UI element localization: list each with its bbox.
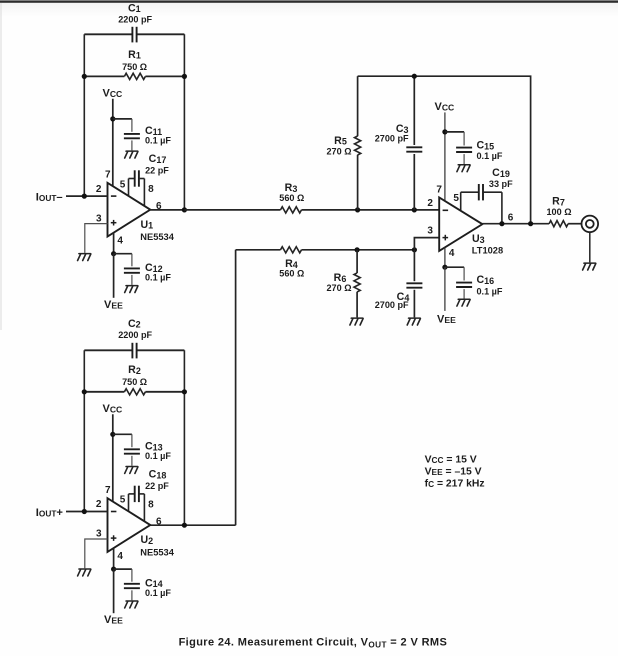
wire: U1 output: [150, 209, 184, 211]
capacitor C12 0.1 uF with ground: [114, 254, 172, 293]
wire: VEE stub (U3): [444, 267, 446, 311]
capacitor C19 33 pF (U3 comp): [461, 167, 513, 224]
svg-text:C1: C1: [128, 2, 141, 14]
ground (connector): [583, 263, 596, 270]
resistor R2 750 Ohm: [84, 364, 184, 395]
svg-text:C16: C16: [477, 274, 495, 286]
svg-text:IOUT+: IOUT+: [36, 507, 64, 519]
wire: VCC stub to U2 pin 7: [112, 414, 114, 501]
wire: U1 pin 4 stub: [113, 233, 115, 254]
svg-text:U3: U3: [472, 233, 485, 245]
svg-text:0.1 µF: 0.1 µF: [145, 451, 171, 461]
svg-text:C15: C15: [477, 139, 495, 151]
wire: VCC stub to U1 pin 7: [112, 99, 114, 186]
op-amp U1 NE5534: [108, 183, 175, 242]
wire: U1 pin 3 to ground: [85, 224, 108, 253]
svg-text:3: 3: [96, 529, 102, 540]
svg-text:C18: C18: [149, 469, 167, 481]
junction: R6 top node: [355, 247, 360, 252]
wire: riser to U3 pin 3: [414, 238, 439, 250]
wire: VCC stub to U3 pin 7: [444, 112, 446, 201]
wire: U3 feedback top rail: [358, 76, 531, 224]
junction: inverting input node: [82, 194, 87, 199]
svg-text:VEE: VEE: [104, 614, 123, 626]
svg-text:VCC: VCC: [103, 88, 123, 100]
capacitor C2 2200 pF: [84, 318, 184, 359]
svg-text:Figure 24. Measurement Circuit: Figure 24. Measurement Circuit, VOUT = 2…: [179, 637, 448, 650]
svg-text:VEE: VEE: [104, 299, 123, 311]
wire: connector shield to ground: [589, 232, 591, 262]
capacitor C11 0.1 uF with ground: [113, 119, 172, 158]
junction: feedback / output: [528, 221, 533, 226]
op-amp U3 LT1028: [439, 197, 503, 255]
resistor R7 100 Ohm: [547, 195, 582, 226]
wire: U1 left feedback vertical: [83, 34, 85, 196]
svg-text:4: 4: [117, 551, 123, 562]
svg-text:R6: R6: [334, 272, 347, 284]
svg-text:R5: R5: [334, 135, 347, 147]
svg-text:2200 pF: 2200 pF: [118, 330, 152, 340]
wire: R3 to U3 pin 2: [358, 209, 440, 211]
svg-text:C19: C19: [492, 167, 510, 179]
op-amp U2 NE5534: [108, 498, 175, 557]
wire: U1 right feedback vertical: [183, 34, 185, 210]
svg-text:2700 pF: 2700 pF: [375, 300, 409, 310]
svg-text:5: 5: [120, 495, 126, 506]
junction: C19 / output: [499, 221, 504, 226]
svg-text:7: 7: [105, 485, 111, 496]
svg-text:2: 2: [96, 499, 102, 510]
wire: U2 output to R4 riser: [150, 524, 235, 526]
svg-text:U1: U1: [141, 219, 154, 231]
svg-text:4: 4: [117, 235, 123, 246]
capacitor C4 2700 pF with ground: [375, 250, 423, 325]
svg-text:22 pF: 22 pF: [145, 481, 169, 491]
svg-text:560 Ω: 560 Ω: [279, 193, 304, 203]
wire: IOUT- input to U1 pin 2: [66, 195, 108, 197]
capacitor C1 2200 pF: [84, 2, 184, 42]
svg-text:VCC = 15 V: VCC = 15 V: [425, 455, 477, 466]
svg-text:7: 7: [436, 184, 442, 195]
svg-text:3: 3: [427, 226, 433, 237]
junction: R1 right node: [182, 74, 187, 79]
svg-text:5: 5: [120, 179, 126, 190]
junction: R5 bottom node: [355, 207, 360, 212]
junction: VCC / C11 tap: [110, 116, 115, 121]
resistor R4 560 Ohm: [236, 247, 358, 279]
junction: VCC / C13 tap: [110, 432, 115, 437]
wire: U3 output: [482, 223, 549, 225]
ground (U1 pin 3): [78, 254, 91, 261]
junction: C4 top node: [412, 247, 417, 252]
svg-text:22 pF: 22 pF: [145, 166, 169, 176]
svg-text:4: 4: [449, 248, 455, 259]
output connector (coax jack): [582, 216, 599, 233]
svg-text:0.1 µF: 0.1 µF: [145, 272, 171, 282]
capacitor C17 22 pF (U1 comp pins 5-8): [129, 153, 170, 206]
svg-text:IOUT–: IOUT–: [36, 192, 63, 204]
svg-text:LT1028: LT1028: [472, 246, 503, 256]
svg-text:2: 2: [96, 184, 102, 195]
capacitor C3 2700 pF: [375, 76, 423, 210]
junction: top rail / C3: [412, 74, 417, 79]
capacitor C13 0.1 uF with ground: [113, 434, 172, 473]
junction: VCC / C15 tap: [442, 129, 447, 134]
svg-text:VEE: VEE: [437, 313, 456, 325]
wire: VEE stub (U1): [113, 254, 115, 298]
junction: U2 inverting input node: [82, 509, 87, 514]
svg-text:NE5534: NE5534: [140, 232, 174, 242]
wire: U2 pin 4 stub: [113, 548, 115, 569]
svg-text:0.1 µF: 0.1 µF: [145, 136, 171, 146]
wire: VEE stub (U2): [113, 569, 115, 613]
svg-text:VEE = –15 V: VEE = –15 V: [425, 466, 482, 477]
resistor R1 750 Ohm: [84, 49, 184, 80]
svg-text:270 Ω: 270 Ω: [327, 146, 352, 156]
svg-text:2: 2: [427, 198, 433, 209]
svg-text:R1: R1: [128, 49, 141, 61]
svg-text:750 Ω: 750 Ω: [122, 62, 147, 72]
resistor R6 270 Ohm with ground: [327, 250, 364, 325]
svg-text:3: 3: [96, 213, 102, 224]
junction: C3 bottom node: [412, 207, 417, 212]
svg-text:7: 7: [105, 170, 111, 181]
svg-text:C2: C2: [128, 318, 141, 330]
wire: riser from U2 output up to R4: [235, 250, 237, 525]
junction: R1 left node: [82, 74, 87, 79]
svg-text:0.1 µF: 0.1 µF: [477, 151, 503, 161]
svg-text:R7: R7: [552, 195, 565, 207]
ground (U2 pin 3): [78, 569, 91, 576]
svg-text:100 Ω: 100 Ω: [547, 207, 572, 217]
svg-text:5: 5: [453, 193, 459, 204]
wire: U3 pin 4 stub: [444, 248, 446, 268]
svg-text:270 Ω: 270 Ω: [327, 283, 352, 293]
junction: R2 right node: [182, 389, 187, 394]
svg-text:VCC: VCC: [435, 101, 455, 113]
capacitor C18 22 pF (U2 comp pins 5-8): [129, 469, 170, 522]
capacitor C15 0.1 uF with ground: [445, 132, 503, 172]
svg-text:2200 pF: 2200 pF: [118, 14, 152, 24]
wire: U2 left feedback vertical: [83, 350, 85, 511]
junction: VEE / C14 tap: [111, 567, 116, 572]
junction: U2 output node: [182, 523, 187, 528]
svg-text:560 Ω: 560 Ω: [279, 269, 304, 279]
svg-text:C17: C17: [149, 153, 167, 165]
svg-text:8: 8: [148, 500, 154, 511]
svg-text:2700 pF: 2700 pF: [375, 134, 409, 144]
wire: U2 pin 3 to ground: [85, 539, 108, 568]
capacitor C16 0.1 uF with ground: [445, 267, 503, 306]
wire: IOUT+ input to U2 pin 2: [66, 511, 108, 513]
svg-text:8: 8: [148, 184, 154, 195]
svg-text:0.1 µF: 0.1 µF: [145, 588, 171, 598]
svg-text:VCC: VCC: [103, 403, 123, 415]
svg-text:R2: R2: [128, 364, 141, 376]
resistor R3 560 Ohm: [184, 182, 357, 213]
wire: U2 right feedback vertical: [183, 350, 185, 525]
resistor R5 270 Ohm: [327, 76, 361, 210]
capacitor C14 0.1 uF with ground: [114, 569, 172, 608]
wire: R4 to C4 node: [357, 249, 414, 251]
svg-text:0.1 µF: 0.1 µF: [477, 287, 503, 297]
svg-text:fC = 217 kHz: fC = 217 kHz: [425, 479, 485, 490]
svg-text:U2: U2: [141, 534, 154, 546]
junction: U1 output node: [182, 207, 187, 212]
svg-text:6: 6: [508, 213, 514, 224]
svg-text:750 Ω: 750 Ω: [122, 377, 147, 387]
svg-text:33 pF: 33 pF: [489, 179, 513, 189]
svg-text:NE5534: NE5534: [140, 547, 174, 557]
junction: VEE / C12 tap: [111, 251, 116, 256]
junction: R2 left node: [82, 389, 87, 394]
junction: VEE / C16 tap: [442, 265, 447, 270]
